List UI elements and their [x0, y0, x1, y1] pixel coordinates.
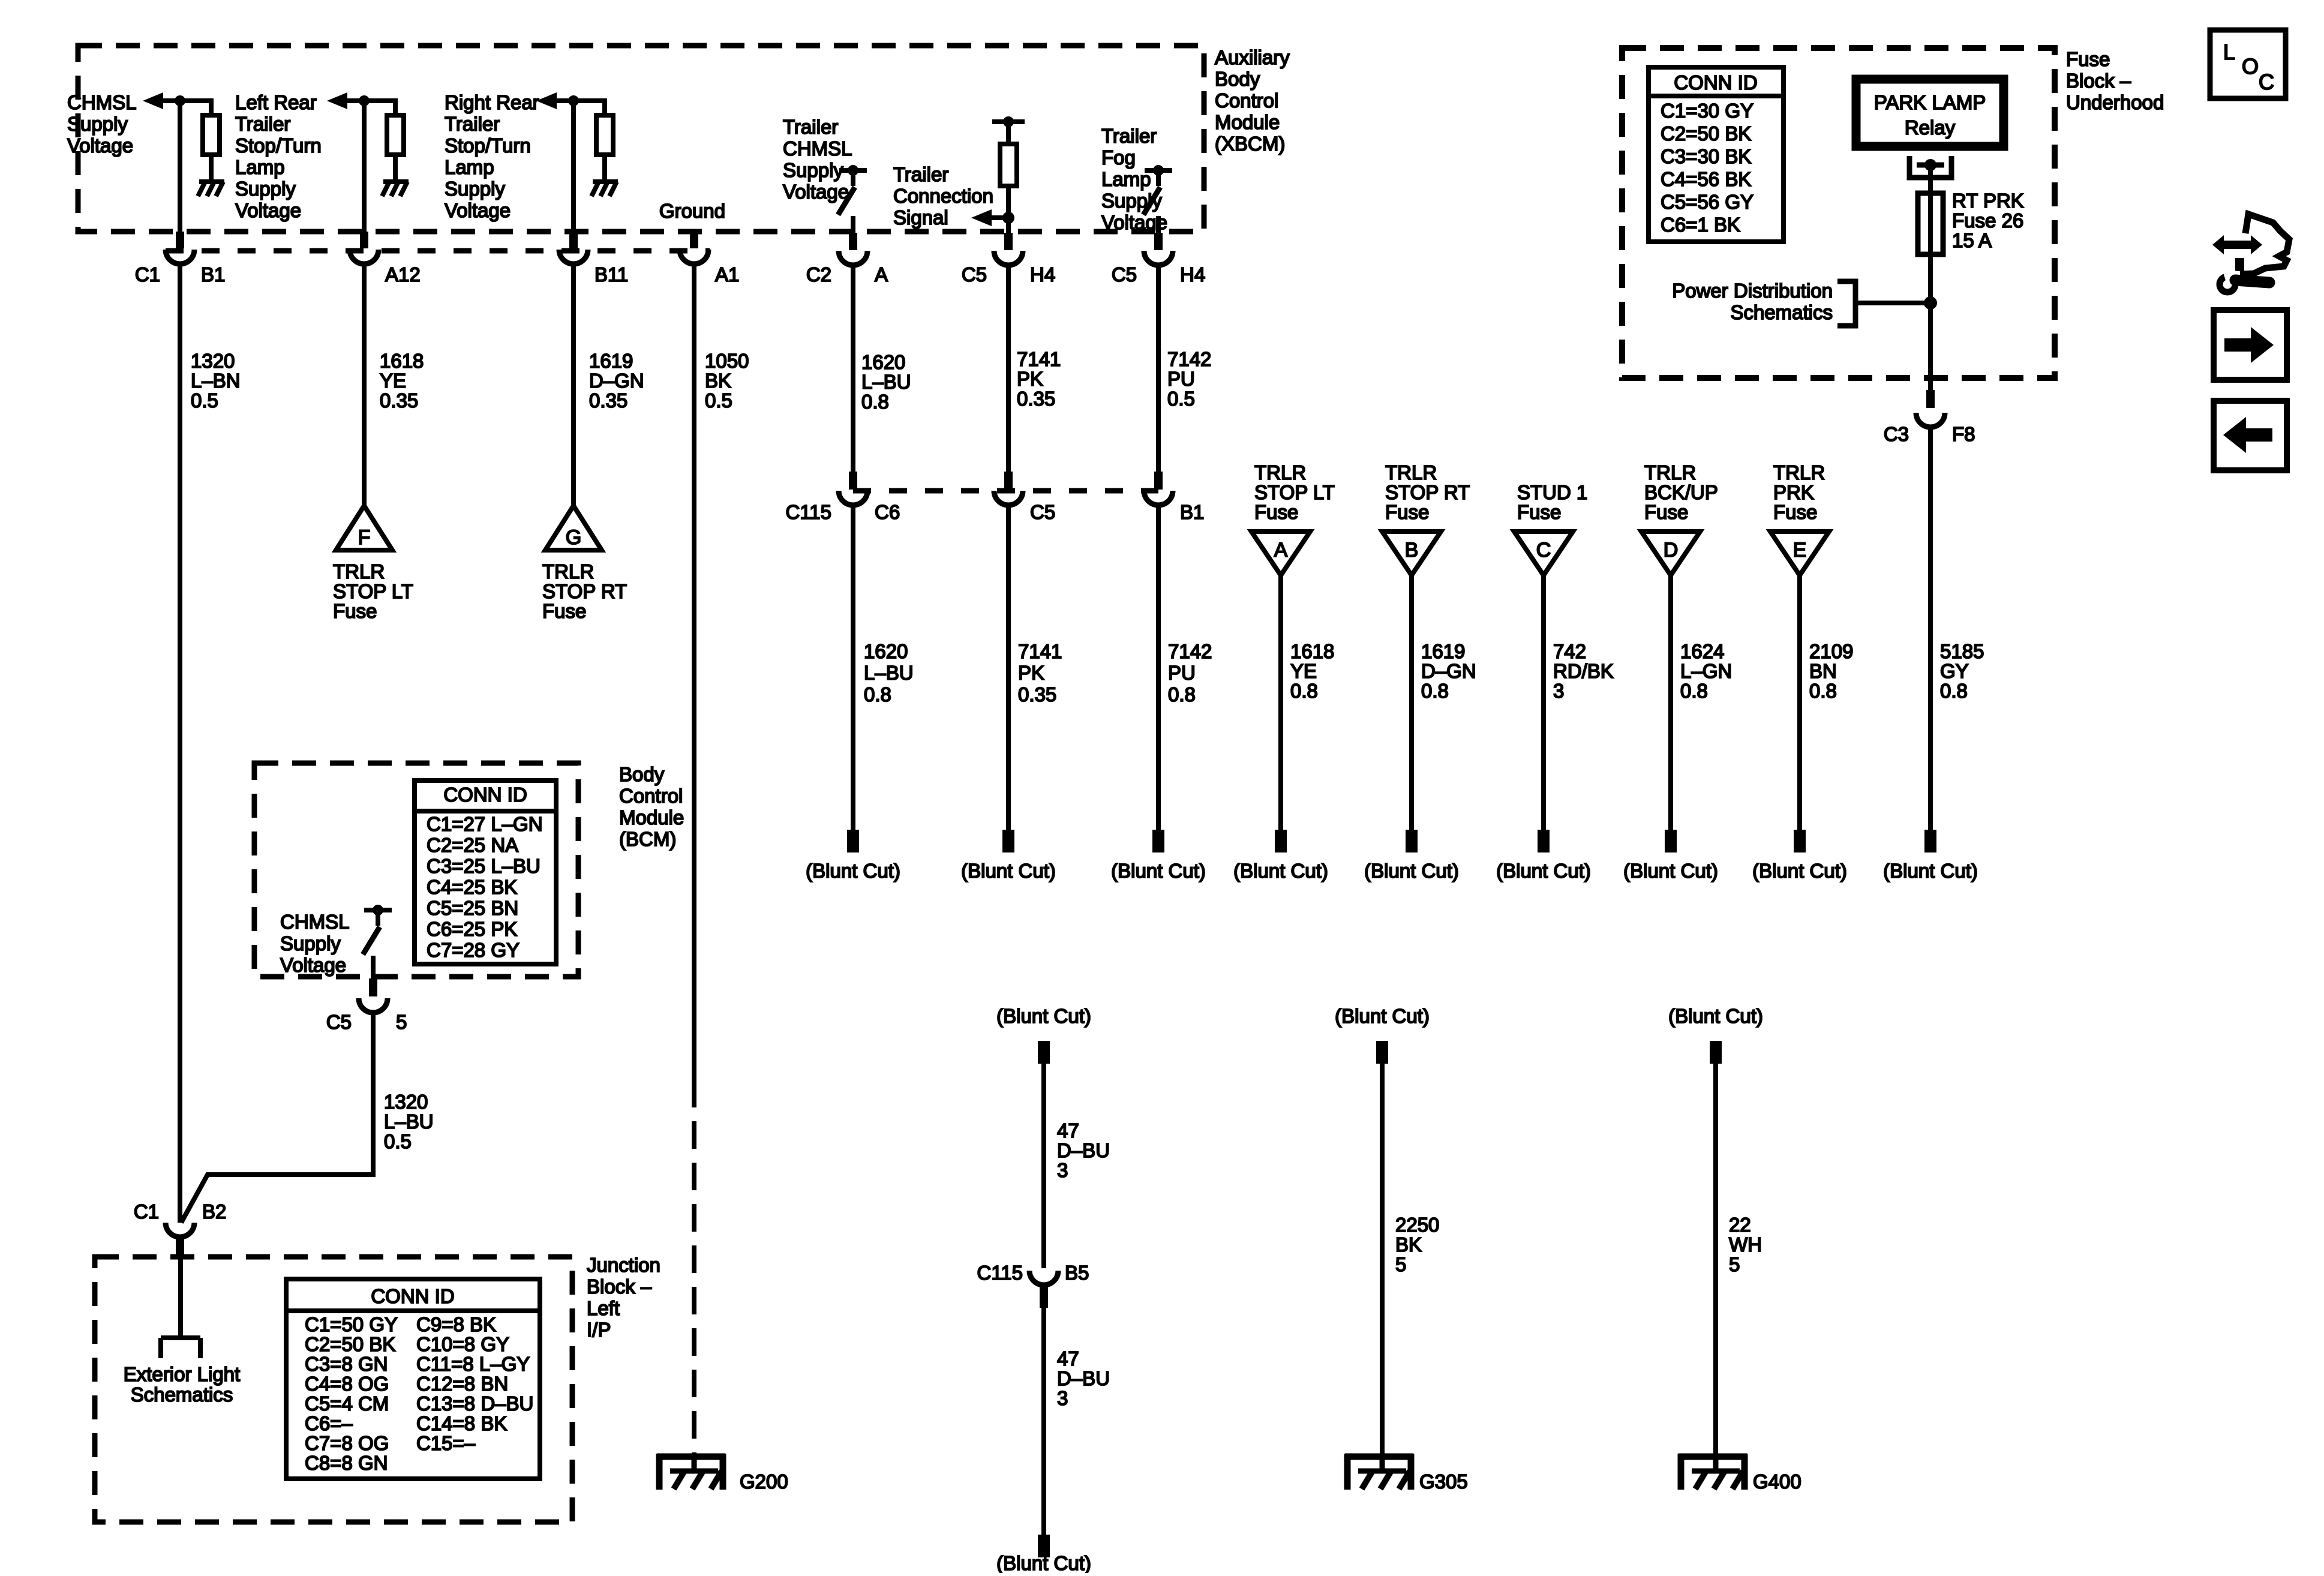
svg-text:D–GN: D–GN: [1421, 660, 1476, 682]
svg-text:(BCM): (BCM): [619, 828, 676, 850]
svg-text:C3=25 L–BU: C3=25 L–BU: [427, 855, 541, 877]
net label: 7142 PU 0.8: [1168, 640, 1212, 706]
svg-text:0.8: 0.8: [1168, 683, 1196, 706]
blunt cut 47 D-BU (bottom): [1038, 1535, 1050, 1557]
wire: into junction block: [178, 1255, 183, 1338]
relay box: PARK LAMP Relay: [1856, 79, 2004, 146]
blunt cut 742: [1538, 830, 1550, 852]
svg-text:C4=56 BK: C4=56 BK: [1661, 168, 1751, 190]
label: Power Distribution Schematics: [1672, 280, 1833, 323]
svg-text:CONN ID: CONN ID: [1674, 71, 1757, 94]
connector C2 pin A: [839, 233, 867, 265]
label: Junction Block - Left I/P: [587, 1254, 660, 1341]
svg-text:STUD 1: STUD 1: [1517, 481, 1587, 503]
svg-text:1618: 1618: [1290, 640, 1334, 662]
svg-text:C6=1 BK: C6=1 BK: [1661, 214, 1740, 236]
pin labels C3 / F8: [1884, 423, 1975, 445]
svg-text:A12: A12: [385, 263, 421, 286]
svg-text:0.5: 0.5: [384, 1130, 412, 1152]
svg-text:STOP RT: STOP RT: [542, 580, 627, 602]
svg-text:Fog: Fog: [1101, 146, 1136, 169]
wire 47 D-BU 3 (lower): [1041, 1308, 1046, 1536]
blunt cut 47 D-BU (top): [1038, 1041, 1050, 1064]
svg-text:Stop/Turn: Stop/Turn: [445, 134, 531, 157]
svg-text:F8: F8: [1952, 423, 1975, 445]
wire: right rear output to connector B11: [571, 101, 576, 235]
svg-text:(Blunt Cut): (Blunt Cut): [1335, 1005, 1430, 1027]
module box: Junction Block - Left I/P: [95, 1257, 572, 1522]
svg-text:0.8: 0.8: [1421, 680, 1449, 702]
CHMSL driver: internal ground: [198, 182, 224, 196]
svg-text:RT PRK: RT PRK: [1952, 190, 2024, 212]
net label: 1320 L-BN 0.5: [191, 350, 241, 412]
svg-text:F: F: [358, 526, 371, 549]
svg-text:E: E: [1793, 539, 1807, 562]
svg-text:C1=30 GY: C1=30 GY: [1661, 100, 1753, 122]
svg-text:0.35: 0.35: [589, 389, 627, 412]
connector C5 pin H4 (fog): [1144, 233, 1173, 265]
svg-text:STOP LT: STOP LT: [333, 580, 413, 602]
svg-text:Supply: Supply: [280, 932, 341, 954]
svg-text:Signal: Signal: [893, 206, 948, 229]
label: CHMSL Supply Voltage: [67, 91, 137, 157]
svg-text:TRLR: TRLR: [1644, 461, 1696, 484]
wire 1320 L-BU 0.5 (BCM leg): [181, 1013, 373, 1223]
module box: Auxiliary Body Control Module (XBCM): [78, 46, 1204, 232]
svg-text:(Blunt Cut): (Blunt Cut): [1623, 860, 1718, 882]
svg-text:Voltage: Voltage: [783, 181, 849, 203]
svg-text:1320: 1320: [191, 350, 235, 372]
Left Rear Trailer Stop/Turn driver: driver resistor: [387, 98, 404, 182]
svg-text:(Blunt Cut): (Blunt Cut): [1111, 860, 1206, 882]
svg-text:BK: BK: [1395, 1233, 1422, 1256]
svg-text:Fuse: Fuse: [1254, 501, 1298, 523]
svg-text:C8=8 GN: C8=8 GN: [305, 1452, 388, 1474]
svg-text:Block –: Block –: [587, 1275, 652, 1298]
svg-text:C5=56 GY: C5=56 GY: [1661, 191, 1753, 213]
svg-text:PK: PK: [1018, 662, 1044, 684]
svg-text:C7=28 GY: C7=28 GY: [427, 939, 520, 961]
wire 7141 PK 0.35 (lower): [1006, 506, 1011, 831]
label: TRLR PRK Fuse: [1773, 461, 1825, 523]
svg-text:I/P: I/P: [587, 1319, 611, 1341]
svg-text:Control: Control: [1215, 89, 1278, 112]
svg-text:Auxiliary: Auxiliary: [1215, 46, 1290, 68]
svg-text:CONN ID: CONN ID: [371, 1285, 454, 1307]
fuse C: STUD 1 Fuse: [1514, 532, 1573, 575]
svg-text:H4: H4: [1180, 263, 1205, 286]
svg-text:PARK LAMP: PARK LAMP: [1874, 91, 1986, 113]
connector C115 boundary line (dashed): [853, 488, 1158, 494]
Right Rear Trailer Stop/Turn driver: output arrow: [536, 92, 605, 109]
label: STUD 1 Fuse: [1517, 481, 1587, 523]
svg-text:L–BN: L–BN: [191, 370, 241, 392]
svg-text:(Blunt Cut): (Blunt Cut): [1752, 860, 1847, 882]
wire: left rear output to connector A12: [362, 101, 367, 235]
label: Auxiliary Body Control Module (XBCM): [1215, 46, 1290, 155]
label: TRLR STOP RT Fuse: [542, 560, 627, 622]
svg-text:PU: PU: [1167, 368, 1195, 390]
pin labels C5 / 5: [326, 1011, 407, 1033]
svg-text:Exterior Light: Exterior Light: [124, 1363, 240, 1385]
svg-text:0.5: 0.5: [1167, 388, 1195, 410]
svg-text:BCK/UP: BCK/UP: [1644, 481, 1718, 503]
wire 1619 D-GN 0.35: [571, 265, 576, 507]
svg-text:STOP RT: STOP RT: [1385, 481, 1470, 503]
wire to G200 (dashed continuation): [692, 1080, 696, 1457]
svg-text:C: C: [1536, 539, 1551, 562]
svg-text:C115: C115: [786, 501, 831, 523]
svg-text:(XBCM): (XBCM): [1215, 133, 1285, 155]
net label: 7142 PU 0.5: [1167, 348, 1211, 410]
net label: 2250 BK 5: [1395, 1214, 1439, 1275]
svg-text:C6=–: C6=–: [305, 1412, 353, 1434]
svg-text:B5: B5: [1065, 1262, 1089, 1284]
svg-text:D–GN: D–GN: [589, 370, 644, 392]
relay contact (park lamp relay): [1909, 156, 1951, 178]
svg-text:Fuse: Fuse: [2066, 48, 2110, 70]
svg-text:0.8: 0.8: [1809, 680, 1837, 702]
svg-text:C5: C5: [962, 263, 987, 286]
table: CONN ID (BCM): [415, 781, 556, 964]
blunt cut 5185: [1924, 830, 1936, 852]
svg-text:Supply: Supply: [67, 113, 128, 135]
label: Exterior Light Schematics: [124, 1363, 240, 1406]
pin labels C5 / H4: [962, 263, 1055, 286]
connector C1 pin B1: [166, 232, 194, 264]
svg-text:3: 3: [1553, 680, 1564, 702]
blunt cut 1624: [1665, 830, 1677, 852]
net label: 7141 PK 0.35: [1018, 640, 1062, 706]
net label: 1618 YE 0.35: [380, 350, 424, 412]
svg-text:TRLR: TRLR: [542, 560, 594, 583]
net label: 22 WH 5: [1729, 1214, 1762, 1275]
net label: 47 D-BU 3: [1057, 1119, 1110, 1181]
label: TRLR STOP LT Fuse: [333, 560, 413, 622]
net label: 1050 BK 0.5: [705, 350, 749, 412]
fuse B: TRLR STOP RT Fuse: [1382, 532, 1441, 575]
svg-text:Power Distribution: Power Distribution: [1672, 280, 1833, 302]
net label: 2109 BN 0.8: [1809, 640, 1853, 702]
wire 22 WH 5: [1713, 1064, 1718, 1457]
svg-text:2250: 2250: [1395, 1214, 1439, 1236]
svg-text:CONN ID: CONN ID: [443, 784, 527, 806]
svg-text:C3: C3: [1884, 423, 1909, 445]
svg-text:Underhood: Underhood: [2066, 91, 2164, 113]
BCM CHMSL supply switch: switch contact: [363, 905, 392, 954]
svg-text:C4=8 OG: C4=8 OG: [305, 1373, 389, 1395]
bracket: power distribution schematics: [1837, 281, 1855, 326]
net label: 1624 L–GN 0.8: [1680, 640, 1732, 702]
svg-text:Junction: Junction: [587, 1254, 660, 1276]
label: Body Control Module (BCM): [619, 763, 684, 850]
svg-text:TRLR: TRLR: [1385, 461, 1437, 484]
net label: 47 D-BU 3: [1057, 1347, 1110, 1409]
svg-text:BN: BN: [1809, 660, 1837, 682]
pin labels C5 / H4: [1112, 263, 1205, 286]
wire 5185 GY 0.8: [1928, 428, 1933, 831]
module box: Body Control Module (BCM): [254, 763, 578, 977]
svg-text:L–GN: L–GN: [1680, 660, 1732, 682]
svg-text:STOP LT: STOP LT: [1254, 481, 1335, 503]
svg-text:Connection: Connection: [893, 185, 993, 207]
svg-text:Schematics: Schematics: [131, 1383, 233, 1406]
svg-text:(Blunt Cut): (Blunt Cut): [806, 860, 900, 882]
svg-text:TRLR: TRLR: [333, 560, 385, 583]
wire: CHMSL output to connector C1-B1: [178, 101, 182, 235]
svg-text:22: 22: [1729, 1214, 1751, 1236]
wire 1320 L-BN 0.5: [178, 265, 182, 1223]
svg-text:YE: YE: [1290, 660, 1317, 682]
svg-text:1620: 1620: [861, 351, 905, 373]
trailer connection pull-up resistor: [992, 116, 1025, 218]
wire 47 D-BU 3 (upper): [1041, 1064, 1046, 1268]
label: RT PRK Fuse 26 15 A: [1952, 190, 2024, 251]
wire: tap to power distribution bracket: [1857, 301, 1930, 305]
svg-text:PK: PK: [1017, 368, 1043, 390]
wire: relay to fuse 26: [1928, 165, 1933, 193]
svg-text:2109: 2109: [1809, 640, 1853, 662]
svg-text:1619: 1619: [1421, 640, 1465, 662]
svg-text:C5=25 BN: C5=25 BN: [427, 897, 518, 919]
Trailer fog lamp supply switch: switch contact: [1143, 165, 1172, 215]
svg-text:BK: BK: [705, 370, 731, 392]
wire 1050 BK 0.5 (solid): [692, 265, 696, 1080]
svg-text:C5: C5: [1112, 263, 1137, 286]
svg-text:0.8: 0.8: [1940, 680, 1968, 702]
svg-text:5: 5: [1395, 1253, 1406, 1275]
fuse E: TRLR PRK Fuse: [1770, 532, 1829, 575]
schematic continuation fork: Exterior Light Schematics: [161, 1338, 200, 1358]
svg-text:C4=25 BK: C4=25 BK: [427, 876, 517, 898]
svg-text:(Blunt Cut): (Blunt Cut): [1496, 860, 1591, 882]
svg-text:C12=8 BN: C12=8 BN: [416, 1373, 508, 1395]
svg-text:C13=8 D–BU: C13=8 D–BU: [416, 1392, 533, 1415]
svg-text:Right Rear: Right Rear: [445, 91, 539, 113]
connector pin A1: [680, 232, 708, 264]
pin labels C115 / B5: [977, 1262, 1089, 1284]
svg-text:1620: 1620: [864, 640, 908, 662]
Left Rear Trailer Stop/Turn driver: internal ground: [382, 182, 409, 196]
svg-text:5185: 5185: [1940, 640, 1984, 662]
svg-text:1320: 1320: [384, 1091, 428, 1113]
svg-text:C10=8 GY: C10=8 GY: [416, 1333, 509, 1355]
connector boundary line C1 (dashed): [166, 248, 710, 254]
svg-text:Left Rear: Left Rear: [235, 91, 317, 113]
svg-text:(Blunt Cut): (Blunt Cut): [1364, 860, 1459, 882]
svg-text:A1: A1: [715, 263, 739, 286]
fuse D: TRLR BCK/UP Fuse: [1641, 532, 1700, 575]
svg-text:Voltage: Voltage: [235, 199, 301, 221]
svg-text:C7=8 OG: C7=8 OG: [305, 1432, 389, 1454]
svg-text:Supply: Supply: [235, 178, 296, 200]
pin labels C1 / B2: [134, 1200, 227, 1223]
net label: 1620 L-BU 0.8: [864, 640, 914, 706]
wire 7142 PU 0.8 (lower): [1156, 506, 1161, 831]
blunt cut 2250 BK: [1376, 1041, 1388, 1064]
svg-text:G200: G200: [740, 1470, 788, 1493]
net label: 1618 YE 0.8: [1290, 640, 1334, 702]
svg-text:L: L: [2223, 40, 2235, 64]
svg-text:C1: C1: [134, 1200, 159, 1223]
svg-text:(Blunt Cut): (Blunt Cut): [996, 1552, 1091, 1573]
svg-text:B: B: [1405, 539, 1419, 562]
fuse G: TRLR STOP RT Fuse: [545, 506, 602, 550]
label: Trailer CHMSL Supply Voltage: [783, 116, 852, 203]
Left Rear Trailer Stop/Turn driver: output arrow: [327, 92, 395, 109]
svg-text:C2=50 BK: C2=50 BK: [305, 1333, 395, 1355]
svg-text:742: 742: [1553, 640, 1586, 662]
svg-text:Voltage: Voltage: [67, 134, 133, 157]
svg-text:RD/BK: RD/BK: [1553, 660, 1614, 682]
net label: 5185 GY 0.8: [1940, 640, 1984, 702]
wire 7142 PU 0.5 (upper): [1156, 266, 1161, 473]
svg-text:Fuse: Fuse: [542, 600, 586, 622]
svg-text:0.8: 0.8: [1680, 680, 1708, 702]
svg-text:Stop/Turn: Stop/Turn: [235, 134, 322, 157]
Right Rear Trailer Stop/Turn driver: internal ground: [591, 182, 618, 196]
svg-text:Supply: Supply: [445, 178, 505, 200]
blunt cut 1620: [847, 830, 859, 852]
pin labels C115 / C6: [786, 501, 900, 523]
table: CONN ID (junction block): [286, 1279, 540, 1479]
svg-text:1050: 1050: [705, 350, 749, 372]
svg-text:7141: 7141: [1018, 640, 1062, 662]
svg-text:C14=8 BK: C14=8 BK: [416, 1412, 507, 1434]
svg-text:1619: 1619: [589, 350, 633, 372]
svg-text:0.5: 0.5: [705, 389, 732, 412]
connector pin A12: [350, 232, 379, 264]
svg-text:Left: Left: [587, 1297, 620, 1319]
label: TRLR BCK/UP Fuse: [1644, 461, 1718, 523]
label: TRLR STOP LT Fuse: [1254, 461, 1335, 523]
svg-text:5: 5: [1729, 1253, 1740, 1275]
svg-text:5: 5: [396, 1011, 407, 1033]
wire: switch to connector C5-H4: [1156, 216, 1161, 235]
svg-text:C9=8 BK: C9=8 BK: [416, 1313, 496, 1335]
node: power distribution tap: [1924, 296, 1937, 310]
svg-text:Voltage: Voltage: [280, 954, 346, 976]
svg-text:Lamp: Lamp: [235, 156, 285, 178]
svg-text:3: 3: [1057, 1159, 1068, 1181]
fuse 26: RT PRK Fuse 26 15 A: [1918, 193, 1943, 254]
wire 2250 BK 5: [1380, 1064, 1385, 1457]
svg-text:0.5: 0.5: [191, 389, 218, 412]
svg-text:Lamp: Lamp: [445, 156, 494, 178]
svg-text:C5=4 CM: C5=4 CM: [305, 1392, 389, 1415]
svg-text:C1: C1: [135, 263, 160, 286]
svg-text:Supply: Supply: [783, 159, 843, 181]
blunt cut 2109: [1794, 830, 1806, 852]
connector C115 pin B1: [1144, 472, 1173, 505]
svg-text:Trailer: Trailer: [893, 163, 948, 185]
net label: 1620 L-BU 0.8: [861, 351, 911, 413]
svg-text:YE: YE: [380, 370, 406, 392]
svg-text:C2=25 NA: C2=25 NA: [427, 834, 518, 856]
icon: back arrow box: [2214, 401, 2287, 470]
svg-text:Fuse: Fuse: [1773, 501, 1817, 523]
svg-text:Trailer: Trailer: [1101, 125, 1157, 147]
svg-text:D–BU: D–BU: [1057, 1367, 1110, 1389]
ground G400: [1679, 1454, 1747, 1490]
svg-text:O: O: [2242, 54, 2259, 79]
svg-text:A: A: [1274, 539, 1288, 562]
label: CHMSL Supply Voltage (BCM): [280, 911, 350, 976]
svg-text:CHMSL: CHMSL: [67, 91, 137, 113]
svg-text:WH: WH: [1729, 1233, 1762, 1256]
svg-text:C1=50 GY: C1=50 GY: [305, 1313, 398, 1335]
node: trailer connection signal junction: [971, 209, 1014, 226]
svg-text:Fuse 26: Fuse 26: [1952, 209, 2023, 232]
svg-text:CHMSL: CHMSL: [783, 137, 852, 160]
svg-text:D–BU: D–BU: [1057, 1139, 1110, 1161]
label: Fuse Block - Underhood: [2066, 48, 2164, 113]
wire: junction to connector C5-H4: [1006, 218, 1011, 235]
fuse A: TRLR STOP LT Fuse: [1251, 532, 1310, 575]
table: CONN ID (fuse block): [1649, 67, 1783, 242]
module box: Fuse Block - Underhood: [1622, 48, 2055, 378]
svg-text:C115: C115: [977, 1262, 1023, 1284]
wire: BCM switch to connector C5-5: [371, 956, 376, 980]
svg-text:0.8: 0.8: [861, 391, 889, 413]
net label: 1619 D-GN 0.35: [589, 350, 644, 412]
svg-text:G305: G305: [1419, 1470, 1468, 1493]
svg-text:B11: B11: [594, 263, 628, 286]
svg-text:(Blunt Cut): (Blunt Cut): [961, 860, 1056, 882]
svg-text:Fuse: Fuse: [333, 600, 377, 622]
net label: 1320 L-BU 0.5: [384, 1091, 434, 1152]
Trailer CHMSL supply switch: switch contact: [838, 165, 867, 215]
svg-text:C1=27 L–GN: C1=27 L–GN: [427, 813, 543, 835]
connector C1 pin B2: [166, 1223, 194, 1256]
svg-text:7141: 7141: [1017, 348, 1061, 370]
svg-text:0.8: 0.8: [864, 683, 891, 706]
wire 1620 L-BU 0.8 (upper): [851, 266, 855, 473]
svg-text:Control: Control: [619, 785, 683, 807]
svg-text:(Blunt Cut): (Blunt Cut): [1233, 860, 1328, 882]
svg-text:(Blunt Cut): (Blunt Cut): [996, 1005, 1091, 1027]
svg-text:Trailer: Trailer: [783, 116, 838, 138]
connector C5 pin 5: [359, 978, 388, 1013]
connector C3 pin F8: [1916, 390, 1945, 427]
svg-text:G400: G400: [1753, 1470, 1801, 1493]
svg-text:0.35: 0.35: [1018, 683, 1056, 706]
label: Right Rear Trailer Stop/Turn Lamp Supply Voltage: [445, 91, 539, 221]
svg-text:0.35: 0.35: [1017, 388, 1055, 410]
wire 1620 L-BU 0.8 (lower): [851, 506, 855, 831]
icon: forward arrow box: [2214, 310, 2287, 380]
connector C115 pin C5: [994, 472, 1023, 505]
label: Left Rear Trailer Stop/Turn Lamp Supply Voltage: [235, 91, 322, 221]
wire 742 RD/BK 3: [1541, 575, 1546, 831]
svg-text:Block –: Block –: [2066, 70, 2131, 92]
svg-text:7142: 7142: [1168, 640, 1212, 662]
svg-text:B1: B1: [201, 263, 225, 286]
svg-text:Trailer: Trailer: [445, 113, 500, 135]
svg-text:C5: C5: [1030, 501, 1055, 523]
Right Rear Trailer Stop/Turn driver: driver resistor: [596, 98, 613, 182]
svg-text:C15=–: C15=–: [416, 1432, 476, 1454]
CHMSL driver: driver resistor: [203, 98, 220, 182]
wire 1624 L–GN 0.8: [1668, 575, 1673, 831]
wire 7141 PK 0.35 (upper): [1006, 266, 1011, 473]
svg-text:3: 3: [1057, 1387, 1068, 1409]
svg-text:Ground: Ground: [659, 200, 725, 222]
blunt cut 1618: [1275, 830, 1287, 852]
svg-text:PRK: PRK: [1773, 481, 1814, 503]
svg-text:C6=25 PK: C6=25 PK: [427, 918, 517, 940]
svg-text:C11=8 L–GY: C11=8 L–GY: [416, 1353, 530, 1375]
